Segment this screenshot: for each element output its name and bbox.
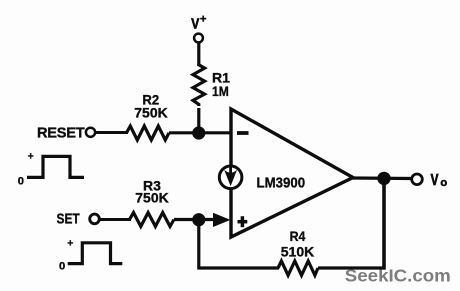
wire op-amp output to terminal [352, 176, 412, 180]
node Vo label [431, 172, 448, 189]
op-amp U1 triangle [231, 109, 353, 237]
R4 value labels [281, 228, 314, 260]
svg-text:R4: R4 [290, 228, 306, 244]
node V+ label [191, 13, 206, 32]
wire feedback rail left segment [198, 266, 280, 269]
op-amp part number LM3900 [257, 175, 306, 192]
wire node B down to feedback rail [197, 220, 200, 270]
node A junction dot (R1/R2/- input) [192, 126, 205, 139]
svg-text:1M: 1M [212, 83, 229, 99]
wire V+ to R1 [197, 43, 200, 67]
wire output node down to feedback rail [382, 178, 386, 270]
resistor R3 [130, 213, 175, 227]
wire R1 to node A [197, 108, 200, 133]
arrowhead into + input [213, 213, 231, 227]
svg-text:+: + [200, 13, 206, 25]
reset pulse + label [28, 151, 34, 163]
wire feedback rail right segment [318, 266, 385, 269]
svg-text:750K: 750K [135, 190, 168, 206]
RESET label [37, 126, 85, 142]
terminal Vo [412, 174, 423, 185]
current source symbol inside op-amp [219, 166, 242, 189]
watermark SeekIC.com [345, 266, 451, 286]
reset pulse waveform [27, 156, 84, 177]
resistor R1 [193, 64, 205, 107]
node B junction dot (+ input) [192, 213, 205, 226]
svg-text:SET: SET [57, 212, 80, 228]
inverting input minus sign [237, 131, 249, 135]
terminal V+ [194, 34, 203, 43]
svg-text:+: + [67, 237, 73, 249]
terminal RESET [86, 128, 95, 137]
svg-text:0: 0 [59, 260, 65, 272]
R1 value labels [212, 70, 230, 100]
set pulse waveform [68, 243, 123, 264]
resistor R4 [278, 261, 318, 275]
svg-text:V: V [431, 172, 439, 189]
wire RESET to R2 [96, 131, 129, 134]
svg-text:LM3900: LM3900 [257, 175, 306, 192]
set pulse 0 label [59, 260, 65, 272]
reset pulse 0 label [18, 175, 24, 187]
SET label [57, 212, 80, 228]
output node junction dot [377, 172, 390, 185]
svg-text:o: o [440, 177, 447, 189]
set pulse + label [67, 237, 73, 249]
svg-text:750K: 750K [134, 104, 167, 120]
terminal SET [90, 214, 100, 224]
svg-text:+: + [28, 151, 34, 163]
resistor R2 [127, 126, 170, 140]
R3 value labels [135, 177, 168, 205]
R2 value labels [134, 92, 167, 121]
svg-text:RESET: RESET [37, 126, 85, 142]
wire R3 to node B [174, 218, 214, 221]
svg-text:0: 0 [18, 175, 24, 187]
svg-text:V: V [191, 16, 199, 33]
wire R2 to inverting input [169, 131, 231, 134]
svg-text:510K: 510K [281, 244, 314, 260]
non-inverting input plus sign [238, 216, 248, 227]
wire SET to R3 [100, 218, 131, 221]
